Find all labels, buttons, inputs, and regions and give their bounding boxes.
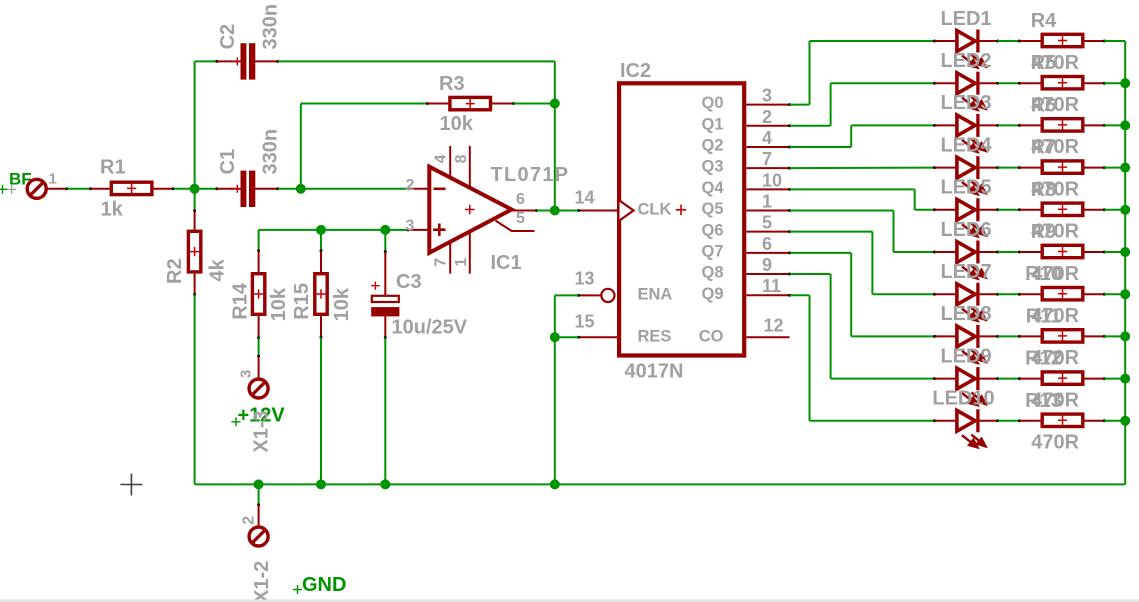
wire to LED5 bbox=[915, 209, 935, 211]
junction bus row 3 bbox=[1120, 120, 1130, 130]
pin end dot bbox=[1103, 377, 1106, 380]
wire up to C2 row bbox=[194, 61, 196, 188]
resistor R1 bbox=[111, 182, 152, 194]
resistor R15 bbox=[315, 274, 327, 315]
svg-text:5: 5 bbox=[762, 213, 772, 233]
svg-text:LED8: LED8 bbox=[940, 303, 991, 325]
wire down to R15 bbox=[320, 230, 322, 251]
wire to LED6 bbox=[894, 251, 935, 253]
svg-text:LED10: LED10 bbox=[932, 388, 994, 410]
wire Q2 vertical bbox=[850, 125, 852, 147]
pin stub Q7 bbox=[746, 252, 789, 254]
svg-text:C1: C1 bbox=[217, 149, 239, 175]
svg-text:4: 4 bbox=[762, 128, 772, 148]
capacitor C3 10u/25V polarized bbox=[372, 296, 399, 302]
svg-text:8: 8 bbox=[453, 154, 470, 163]
pin stub op-amp output 6 bbox=[512, 210, 537, 212]
wire LED8 to R11 bbox=[998, 335, 1020, 337]
svg-text:R13: R13 bbox=[1025, 390, 1062, 412]
pin stub X1-1 bbox=[45, 188, 67, 190]
svg-text:ENA: ENA bbox=[638, 286, 673, 304]
pin end dot bbox=[933, 251, 936, 254]
pin end dot bbox=[933, 40, 936, 43]
wire node down to R2 bbox=[194, 189, 196, 211]
resistor R7 bbox=[1042, 161, 1083, 173]
LED8 emission arrows bbox=[962, 350, 986, 363]
resistor R6 bbox=[1042, 119, 1083, 131]
pin stub R13 right bbox=[1084, 420, 1104, 422]
pin end dot bbox=[933, 166, 936, 169]
svg-text:R7: R7 bbox=[1031, 137, 1057, 159]
svg-text:6: 6 bbox=[516, 191, 525, 208]
junction bus row 10 bbox=[1120, 416, 1130, 426]
resistor R4 bbox=[1042, 34, 1083, 46]
resistor R11 bbox=[1042, 330, 1083, 342]
pin end dot bbox=[933, 208, 936, 211]
wire LED9 to R12 bbox=[998, 378, 1020, 380]
wire LED4 to R7 bbox=[998, 167, 1020, 169]
svg-text:R3: R3 bbox=[439, 73, 465, 95]
junction op-amp output / feedback bbox=[550, 206, 560, 216]
capacitor C2 330n bbox=[241, 43, 247, 79]
pin end dot bbox=[788, 294, 791, 297]
wire to LED2 bbox=[831, 82, 935, 84]
wire Q4 vertical bbox=[914, 189, 916, 209]
svg-text:1: 1 bbox=[453, 258, 470, 267]
pin end dot bbox=[1018, 166, 1021, 169]
junction bus row 6 bbox=[1120, 247, 1130, 257]
C3 plus mark bbox=[371, 282, 379, 290]
connector X1-1 (BF input) bbox=[27, 179, 46, 198]
svg-text:10u/25V: 10u/25V bbox=[392, 317, 468, 339]
wire bbox=[195, 483, 1126, 485]
LED4 cathode bar bbox=[976, 156, 979, 179]
wire down to R14 bbox=[258, 230, 260, 251]
pin stub op-amp pin3 bbox=[408, 229, 430, 231]
pin stub LED7 cathode bbox=[980, 293, 998, 295]
wire R10 to anode bus bbox=[1104, 293, 1125, 295]
wire Q2 horizontal bbox=[790, 146, 852, 148]
resistor R2 bbox=[188, 231, 200, 272]
LED10 emission arrows bbox=[962, 435, 986, 448]
pin end dot bbox=[933, 335, 936, 338]
pin end dot bbox=[257, 337, 260, 340]
LED5 symbol bbox=[957, 199, 975, 220]
pin stub R2 top bbox=[194, 211, 196, 230]
svg-text:7: 7 bbox=[432, 258, 449, 267]
pin end dot bbox=[1103, 419, 1106, 422]
wire LED6 to R9 bbox=[998, 251, 1020, 253]
svg-text:Q5: Q5 bbox=[701, 200, 723, 218]
pin stub RES bbox=[579, 336, 618, 338]
scrollbar strip bottom bbox=[0, 599, 1139, 602]
junction ground/X1-2 bbox=[254, 479, 264, 489]
svg-text:R4: R4 bbox=[1031, 10, 1057, 32]
op-amp power pins 7,1 bottom bbox=[449, 242, 451, 274]
LED7 cathode bar bbox=[976, 283, 979, 306]
pin end dot bbox=[996, 208, 999, 211]
pin stub R5 left bbox=[1020, 82, 1042, 84]
pin stub LED6 anode bbox=[935, 251, 958, 253]
junction C3 top bbox=[380, 225, 390, 235]
junction bus row 8 bbox=[1120, 331, 1130, 341]
wire R11 to anode bus bbox=[1104, 335, 1125, 337]
svg-text:3: 3 bbox=[762, 86, 772, 106]
pin stub R5 right bbox=[1084, 82, 1104, 84]
pin end dot bbox=[1018, 419, 1021, 422]
junction bus row 2 bbox=[1120, 78, 1130, 88]
svg-text:14: 14 bbox=[575, 187, 595, 207]
svg-text:7: 7 bbox=[762, 149, 772, 169]
pin stub LED4 anode bbox=[935, 167, 958, 169]
svg-text:C2: C2 bbox=[217, 24, 239, 50]
svg-text:330n: 330n bbox=[260, 129, 282, 175]
LED6 emission arrows bbox=[962, 266, 986, 279]
pin stub LED2 anode bbox=[935, 82, 958, 84]
pin stub X1-3 bbox=[258, 356, 260, 380]
svg-text:C3: C3 bbox=[396, 271, 422, 293]
pin end dot bbox=[933, 419, 936, 422]
svg-text:Q4: Q4 bbox=[701, 179, 724, 197]
pin stub Q3 bbox=[746, 167, 789, 169]
pin end dot bbox=[1018, 293, 1021, 296]
svg-text:LED2: LED2 bbox=[940, 50, 991, 72]
svg-text:LED7: LED7 bbox=[940, 261, 991, 283]
svg-text:LED3: LED3 bbox=[940, 92, 991, 114]
wire Q1 horizontal bbox=[790, 125, 831, 127]
junction node after C1 bbox=[296, 184, 306, 194]
pin stub R1 left bbox=[91, 188, 110, 190]
pin end dot bbox=[996, 124, 999, 127]
pin stub R14 bottom bbox=[258, 316, 260, 338]
pin stub LED2 cathode bbox=[980, 82, 998, 84]
svg-text:IC2: IC2 bbox=[620, 60, 651, 82]
pin end dot bbox=[1018, 335, 1021, 338]
wire node to C1 bbox=[195, 188, 217, 190]
svg-text:IC1: IC1 bbox=[491, 252, 522, 274]
pin stub Q1 bbox=[746, 125, 789, 127]
resistor R8 bbox=[1042, 203, 1083, 215]
junction ground/R15 bbox=[316, 479, 326, 489]
wire op-amp pin3 row bbox=[259, 229, 409, 231]
svg-text:10k: 10k bbox=[331, 287, 353, 321]
pin stub R15 top bbox=[320, 251, 322, 272]
resistor R3 bbox=[450, 97, 491, 109]
op-amp inverting input minus mark bbox=[434, 188, 446, 191]
pin end dot bbox=[384, 250, 387, 253]
pin stub R2 bottom bbox=[194, 273, 196, 294]
pin stub Q2 bbox=[746, 146, 789, 148]
svg-text:Q6: Q6 bbox=[701, 221, 723, 239]
LED1 symbol bbox=[957, 31, 975, 52]
LED2 emission arrows bbox=[962, 97, 986, 110]
resistor R13 bbox=[1042, 414, 1083, 426]
pin stub LED5 anode bbox=[935, 209, 958, 211]
pin stub R8 left bbox=[1020, 209, 1042, 211]
LED10 cathode bar bbox=[976, 409, 979, 432]
pin stub LED10 anode bbox=[935, 420, 958, 422]
pin stub LED4 cathode bbox=[980, 167, 998, 169]
wire C3 to ground bus bbox=[384, 338, 386, 485]
ENA bubble bbox=[601, 289, 614, 302]
wire Q9 horizontal bbox=[790, 294, 810, 296]
wire Q3 straight to LED4 bbox=[790, 167, 935, 170]
svg-text:Q7: Q7 bbox=[701, 242, 723, 260]
pin end dot bbox=[512, 102, 515, 105]
pin stub R7 left bbox=[1020, 167, 1042, 169]
pin end dot bbox=[89, 187, 92, 190]
pin stub R10 left bbox=[1020, 293, 1042, 295]
wire R7 to anode bus bbox=[1104, 167, 1125, 169]
pin end dot bbox=[996, 419, 999, 422]
wire to op-amp pin2 bbox=[301, 188, 409, 190]
wire Q8 vertical bbox=[830, 274, 832, 379]
CLK plus mark bbox=[676, 205, 686, 215]
pin end dot bbox=[996, 82, 999, 85]
svg-text:R9: R9 bbox=[1031, 221, 1057, 243]
wire BF net bbox=[67, 188, 91, 190]
wire to LED8 bbox=[851, 335, 934, 337]
wire R9 to anode bus bbox=[1104, 251, 1125, 253]
pin end dot bbox=[172, 187, 175, 190]
wire Q4 horizontal bbox=[790, 188, 915, 190]
pin end dot bbox=[426, 102, 429, 105]
wire down to C3 bbox=[384, 230, 386, 252]
junction ground/ENA-RES bbox=[550, 479, 560, 489]
pin end dot bbox=[1103, 251, 1106, 254]
pin stub C2 left bbox=[217, 60, 241, 62]
pin end dot bbox=[215, 187, 218, 190]
op-amp IC1 TL071P triangle bbox=[429, 167, 511, 253]
LED7 symbol bbox=[957, 284, 975, 305]
LED10 symbol bbox=[957, 410, 975, 431]
IC2 4017N body bbox=[619, 83, 744, 355]
wire LED2 to R5 bbox=[998, 82, 1020, 84]
LED6 symbol bbox=[957, 242, 975, 263]
pin stub R11 left bbox=[1020, 335, 1042, 337]
svg-text:330n: 330n bbox=[260, 4, 282, 50]
pin stub C3 bottom bbox=[384, 316, 386, 337]
capacitor C1 330n bbox=[241, 171, 247, 207]
CLK input chevron bbox=[620, 201, 634, 221]
LED9 cathode bar bbox=[976, 367, 979, 390]
LED8 cathode bar bbox=[976, 325, 979, 348]
pin end dot bbox=[788, 188, 791, 191]
pin end dot bbox=[788, 273, 791, 276]
svg-text:4017N: 4017N bbox=[625, 361, 684, 383]
LED2 cathode bar bbox=[976, 72, 979, 95]
pin end dot bbox=[996, 40, 999, 43]
wire LED5 to R8 bbox=[998, 209, 1020, 211]
pin end dot bbox=[1103, 82, 1106, 85]
svg-text:10k: 10k bbox=[440, 113, 474, 135]
pin end dot bbox=[788, 209, 791, 212]
svg-text:CLK: CLK bbox=[638, 201, 672, 219]
junction bus row 9 bbox=[1120, 374, 1130, 384]
svg-text:Q8: Q8 bbox=[701, 264, 723, 282]
pin stub Q6 bbox=[746, 231, 789, 233]
pin end dot bbox=[1018, 208, 1021, 211]
pin end dot bbox=[276, 187, 279, 190]
svg-text:R10: R10 bbox=[1025, 263, 1062, 285]
pin stub C1 left bbox=[217, 188, 241, 190]
sheet origin cross bbox=[120, 474, 142, 496]
resistor R5 bbox=[1042, 77, 1083, 89]
wire R2 to ground bus bbox=[194, 295, 196, 485]
svg-text:RES: RES bbox=[638, 327, 672, 345]
wire to LED1 bbox=[810, 40, 935, 42]
svg-text:LED4: LED4 bbox=[940, 134, 992, 156]
wire to node bbox=[173, 188, 194, 190]
LED5 emission arrows bbox=[962, 224, 986, 237]
svg-text:Q2: Q2 bbox=[701, 137, 723, 155]
pin end dot bbox=[996, 166, 999, 169]
pin end dot bbox=[384, 336, 387, 339]
wire to RES bbox=[555, 336, 579, 338]
svg-text:R14: R14 bbox=[230, 282, 252, 320]
wire C2 row left bbox=[195, 60, 217, 62]
pin stub LED9 cathode bbox=[980, 378, 998, 380]
svg-text:X1-2: X1-2 bbox=[251, 561, 273, 602]
pin end dot bbox=[996, 251, 999, 254]
wire Q8 horizontal bbox=[790, 273, 831, 275]
pin end dot bbox=[1103, 124, 1106, 127]
junction R15 top bbox=[316, 225, 326, 235]
wire Q7 vertical bbox=[850, 253, 852, 337]
C2 origin cross bbox=[233, 57, 241, 65]
pin end dot bbox=[1018, 40, 1021, 43]
pin stub R4 left bbox=[1020, 40, 1042, 42]
pin end dot bbox=[535, 209, 538, 212]
pin stub LED3 anode bbox=[935, 124, 958, 126]
pin stub Q9 bbox=[746, 294, 789, 296]
svg-text:2: 2 bbox=[406, 177, 415, 194]
LED2 symbol bbox=[957, 73, 975, 94]
pin stub C2 right bbox=[255, 60, 278, 62]
wire to LED10 bbox=[810, 420, 935, 422]
C1 origin cross bbox=[233, 185, 241, 193]
net label +12V origin bbox=[232, 417, 241, 426]
svg-text:R15: R15 bbox=[291, 283, 313, 320]
wire R3 row left bbox=[301, 103, 428, 105]
pin stub R4 right bbox=[1084, 40, 1104, 42]
pin end dot bbox=[1103, 293, 1106, 296]
wire to ENA bbox=[555, 294, 579, 296]
wire C2 row right bbox=[278, 60, 555, 62]
pin stub R7 right bbox=[1084, 167, 1104, 169]
pin stub LED8 anode bbox=[935, 335, 958, 337]
LED3 cathode bar bbox=[976, 114, 979, 137]
svg-text:4k: 4k bbox=[206, 258, 228, 281]
pin stub R8 right bbox=[1084, 209, 1104, 211]
pin end dot bbox=[407, 228, 410, 231]
pin end dot bbox=[257, 503, 260, 506]
junction node at R1/C1/C2/R2 bbox=[190, 184, 200, 194]
svg-text:R12: R12 bbox=[1025, 348, 1062, 370]
resistor R10 bbox=[1042, 288, 1083, 300]
wire to LED7 bbox=[872, 293, 934, 295]
pin stub LED7 anode bbox=[935, 293, 958, 295]
pin end dot bbox=[1018, 124, 1021, 127]
pin end dot bbox=[933, 293, 936, 296]
wire Q0 vertical bbox=[809, 41, 811, 105]
pin stub Q8 bbox=[746, 273, 789, 275]
wire to LED9 bbox=[831, 378, 935, 380]
op-amp pin5 offset stub bbox=[496, 221, 535, 231]
wire to CLK bbox=[555, 210, 579, 212]
junction bus row 7 bbox=[1120, 289, 1130, 299]
pin end dot bbox=[577, 294, 580, 297]
LED3 emission arrows bbox=[962, 139, 986, 152]
wire Q5 horizontal bbox=[790, 210, 894, 212]
wire Q0 horizontal bbox=[790, 104, 810, 106]
pin end dot bbox=[788, 167, 791, 170]
LED4 symbol bbox=[957, 157, 975, 178]
svg-text:Q1: Q1 bbox=[701, 115, 723, 133]
pin end dot bbox=[788, 103, 791, 106]
resistor R14 bbox=[252, 274, 264, 315]
pin stub LED9 anode bbox=[935, 378, 958, 380]
pin stub R12 left bbox=[1020, 378, 1042, 380]
pin stub LED6 cathode bbox=[980, 251, 998, 253]
LED4 emission arrows bbox=[962, 181, 986, 194]
svg-text:15: 15 bbox=[575, 312, 595, 332]
wire ENA/RES column to ground bbox=[554, 295, 556, 484]
svg-text:LED1: LED1 bbox=[940, 8, 991, 30]
pin stub CLK bbox=[579, 210, 620, 212]
svg-text:1k: 1k bbox=[101, 199, 124, 221]
wire bbox=[1124, 41, 1126, 484]
pin stub R11 right bbox=[1084, 335, 1104, 337]
wire LED3 to R6 bbox=[998, 124, 1020, 126]
pin end dot bbox=[788, 145, 791, 148]
wire ground to X1-2 bbox=[258, 484, 260, 505]
svg-text:4: 4 bbox=[432, 154, 449, 163]
svg-text:2: 2 bbox=[241, 516, 258, 525]
pin end dot bbox=[1103, 335, 1106, 338]
pin end dot bbox=[257, 355, 260, 358]
pin stub Q4 bbox=[746, 188, 789, 190]
pin stub R10 right bbox=[1084, 293, 1104, 295]
pin end dot bbox=[1018, 377, 1021, 380]
wire LED10 to R13 bbox=[998, 420, 1020, 422]
svg-text:12: 12 bbox=[764, 316, 784, 336]
pin end dot bbox=[933, 377, 936, 380]
pin end dot bbox=[996, 335, 999, 338]
op-amp non-inverting input plus mark bbox=[433, 224, 445, 236]
wire up to R3 row bbox=[300, 104, 302, 189]
svg-text:1: 1 bbox=[49, 171, 57, 188]
IC1 origin cross bbox=[465, 205, 475, 215]
svg-text:LED9: LED9 bbox=[940, 345, 991, 367]
pin end dot bbox=[577, 336, 580, 339]
pin stub op-amp pin2 bbox=[408, 188, 430, 190]
pin stub R6 left bbox=[1020, 124, 1042, 126]
wire R3 row right bbox=[514, 103, 555, 105]
svg-text:470R: 470R bbox=[1031, 432, 1079, 454]
wire R4 to anode bus bbox=[1104, 40, 1125, 42]
wire output to node bbox=[537, 210, 555, 212]
LED3 symbol bbox=[957, 115, 975, 136]
svg-text:TL071P: TL071P bbox=[491, 164, 570, 186]
junction bus row 5 bbox=[1120, 205, 1130, 215]
pin end dot bbox=[193, 209, 196, 212]
wire Q1 vertical bbox=[830, 83, 832, 126]
pin end dot bbox=[933, 82, 936, 85]
wire Q5 vertical bbox=[893, 211, 895, 253]
wire Q7 horizontal bbox=[790, 252, 852, 254]
pin end dot bbox=[407, 187, 410, 190]
